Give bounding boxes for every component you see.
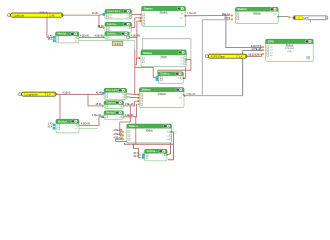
svg-text:Latitude: Latitude [14, 13, 25, 17]
svg-text:45.46: 45.46 [96, 92, 103, 95]
svg-text:GPS Raw: GPS Raw [211, 54, 225, 58]
wire S3p branch crossing N4 to wrap B [135, 117, 137, 144]
wire S4 out up [184, 67, 186, 78]
svg-text:Lat: Lat [167, 134, 170, 137]
wire S1p r1 to N3 r1 [127, 93, 135, 95]
node S6 Multiply [40, 6, 314, 160]
svg-text:45.4: 45.4 [48, 126, 53, 129]
svg-text:4.5E+06: 4.5E+06 [95, 35, 105, 38]
display P3 GPS readout [288, 16, 328, 20]
svg-text:45.4: 45.4 [48, 38, 53, 41]
wire N1 branch down to GPS r1 [226, 16, 262, 48]
svg-text:Status: Status [129, 124, 139, 128]
svg-text:4.5E+0: 4.5E+0 [63, 92, 71, 95]
wire N4 wrap A to S5 out [116, 139, 171, 154]
node S3b Multiply [40, 6, 314, 160]
svg-text:GPS: GPS [303, 16, 309, 20]
svg-text:Sat: Sat [270, 51, 274, 54]
wire bus x242.7 to GPS r2 [243, 51, 262, 96]
node N4 Status [40, 7, 314, 158]
node S1b Geo:LatLon [40, 6, 314, 160]
node N6 GPS [40, 11, 314, 157]
wire S2p out to N3 r3 [124, 101, 138, 106]
wire gray staple N1-N2 [143, 39, 191, 60]
wire S2 out to N1 row2 [132, 18, 142, 28]
node S1 Geo:LatLon [40, 6, 314, 160]
svg-text:Subtra...: Subtra... [147, 149, 158, 153]
svg-text:Geo:LatLo: Geo:LatLo [106, 88, 119, 92]
wire value labels [40, 11, 263, 157]
wire S6 green out [79, 127, 98, 129]
node N3 Status [40, 7, 314, 158]
node N2 Status [40, 7, 314, 158]
wire bus x137 [137, 21, 142, 58]
svg-text:4.5E+06: 4.5E+06 [131, 35, 141, 38]
svg-text:Status: Status [143, 51, 153, 55]
wire S5 stub row2 [134, 144, 141, 157]
wire P1 branch to S2 [99, 15, 103, 27]
svg-text:GPS: GPS [268, 40, 274, 44]
wire P1 Latitude main [63, 14, 104, 17]
svg-text:4.5E+06: 4.5E+06 [113, 129, 123, 132]
slider P2 Longitude [19, 92, 57, 96]
svg-text:08.20 E/W: 08.20 E/W [249, 53, 261, 56]
svg-text:45.46: 45.46 [92, 12, 99, 15]
svg-text:4.5E+06: 4.5E+06 [113, 133, 123, 136]
svg-text:45.4: 45.4 [133, 155, 138, 158]
node S5 Subtract [40, 6, 314, 160]
svg-text:1.4: 1.4 [47, 92, 51, 96]
svg-text:Button: Button [238, 7, 248, 11]
svg-text:Status: Status [142, 88, 152, 92]
svg-text:(-95): (-95) [287, 51, 292, 53]
svg-text:Subtra...: Subtra... [107, 31, 118, 35]
svg-text:4.07E+06: 4.07E+06 [251, 48, 262, 51]
wire S3p out to N3 r4 [124, 104, 138, 117]
wire N4 out around S5 [168, 132, 173, 160]
svg-text:4.5E+06: 4.5E+06 [187, 12, 197, 15]
wire N5 out to P3 [278, 16, 288, 18]
svg-text:Subtra...: Subtra... [107, 22, 118, 26]
wire L pos from bus to N5 r3 [202, 20, 229, 96]
wire P2 branch to S6 top [59, 94, 61, 119]
svg-text:45.46: 45.46 [98, 25, 105, 28]
wire S3 out stub [129, 36, 137, 38]
svg-text:4.5E+06: 4.5E+06 [186, 93, 196, 96]
svg-text:Multipl...: Multipl... [58, 32, 69, 36]
svg-text:45.46: 45.46 [96, 103, 103, 106]
svg-text:L pos: L pos [224, 17, 231, 20]
svg-text:Status: Status [144, 7, 154, 11]
svg-text:Lat: Lat [270, 46, 273, 49]
wire S1p r2 to N3 r2 [127, 96, 138, 99]
wire va arrow r1 stub [120, 131, 122, 133]
svg-text:Lat: Lat [181, 59, 184, 62]
svg-text:Subtra...: Subtra... [160, 72, 171, 76]
wire P1 branch to M1 [47, 15, 53, 37]
wire P2 main [56, 93, 102, 95]
node S4 Subtract [40, 6, 314, 160]
wire N3 out gray bus [184, 95, 243, 97]
svg-text:Longitude: Longitude [25, 92, 39, 96]
wire S1 out to N1 row1 [132, 13, 142, 15]
svg-text:4.5E+06: 4.5E+06 [113, 136, 123, 139]
wire corridor x134.8 down [135, 50, 138, 95]
svg-text:4.5E+06: 4.5E+06 [80, 35, 90, 38]
node N5 Button [40, 7, 314, 158]
wire M1 out to S3 [79, 36, 104, 38]
svg-text:1.40: 1.40 [49, 13, 55, 17]
node S2 Subtract [40, 6, 314, 160]
wire P4 out to GPS row3 [247, 54, 261, 56]
svg-text:4.5E+0: 4.5E+0 [40, 11, 48, 14]
svg-text:4.5E+06: 4.5E+06 [125, 114, 135, 117]
wire P3 bottom stub [310, 20, 312, 23]
svg-text:Geo:LatLo: Geo:LatLo [107, 9, 121, 13]
wire N1 out to N5 Map Lo [186, 15, 229, 17]
wire M1 green out [79, 41, 135, 50]
svg-text:4.5E+06: 4.5E+06 [81, 123, 91, 126]
svg-text:Map Lo: Map Lo [222, 13, 231, 16]
svg-text:4.5E+06: 4.5E+06 [92, 114, 102, 117]
node M1 Multiply [40, 6, 314, 160]
node N1 Status [40, 6, 314, 157]
wire N4 wrap B [124, 143, 173, 144]
wire corridor hook N2 row1 [135, 58, 138, 65]
svg-text:1.2.3: 1.2.3 [115, 42, 121, 46]
wire N2 out wrap to S4 row2 [156, 60, 191, 80]
wire corridor h1 to S4 row1 [135, 67, 156, 77]
wire S6 out to S3p [79, 117, 102, 126]
slider P1 Latitude [8, 13, 64, 17]
display beige 123 box [112, 41, 123, 46]
node S2b Subtract [40, 6, 314, 160]
svg-text:Multipl...: Multipl... [58, 119, 69, 123]
wire corridor va to N4 r1 r2 [120, 106, 131, 136]
svg-text:(274.002): (274.002) [285, 48, 295, 50]
wire S5 stub row1 [139, 154, 141, 156]
node S3 Subtract [40, 6, 314, 160]
slider P4 GPS raw [205, 54, 247, 58]
wire P2 branch to S2p [88, 94, 102, 106]
svg-text:Lat: Lat [109, 13, 112, 16]
svg-text:4.5E+06: 4.5E+06 [125, 103, 135, 106]
svg-text:1.4: 1.4 [239, 54, 243, 58]
